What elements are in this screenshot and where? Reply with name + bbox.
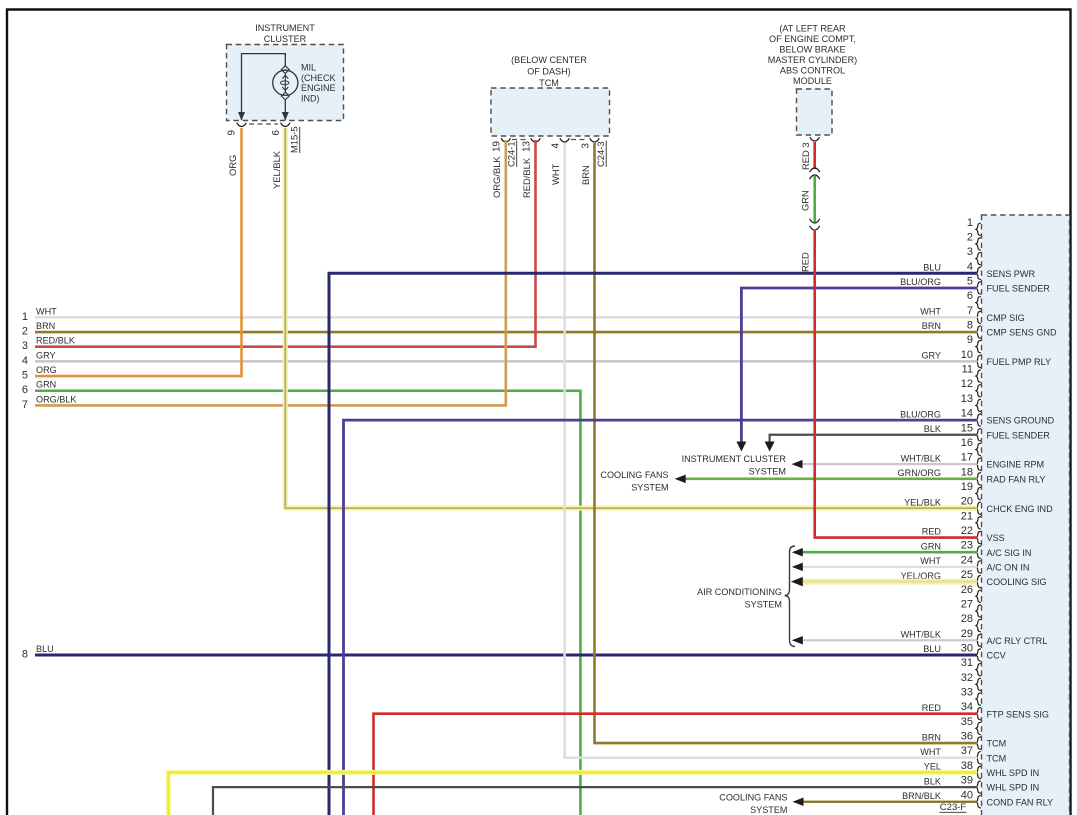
wire GRN/ORG pin 18 RAD FAN RLY [685,478,977,481]
svg-text:RED: RED [922,703,942,713]
ORG/BLK label [491,156,502,198]
svg-text:C24-1: C24-1 [506,141,517,167]
svg-text:9: 9 [227,130,238,135]
cooling fans system label bottom [719,793,787,815]
pin 19 [961,481,981,500]
svg-text:BLU/ORG: BLU/ORG [900,409,941,419]
connector label C23-F [940,802,967,813]
svg-text:4: 4 [551,143,562,149]
svg-text:8: 8 [22,648,28,660]
pin 30 CCV [923,642,1006,661]
svg-text:BRN: BRN [580,165,591,185]
wire RED/BLK row3 to TCM pin 13 [35,140,536,347]
svg-text:6: 6 [22,384,28,396]
MIL lamp U-MIL [273,66,298,100]
pin 32 [961,672,981,691]
pin 9 [967,334,981,353]
pin 1 [967,217,981,236]
svg-text:27: 27 [961,598,973,610]
ORG label [227,155,238,176]
svg-text:FUEL SENDER: FUEL SENDER [987,430,1051,440]
arrow WHT left [792,563,803,572]
svg-text:7: 7 [22,399,28,411]
svg-text:23: 23 [961,540,973,552]
svg-text:BRN: BRN [922,732,941,742]
svg-text:WHL SPD IN: WHL SPD IN [987,768,1040,778]
svg-text:4: 4 [967,261,973,273]
wire cluster internal [242,54,286,120]
svg-text:A/C SIG IN: A/C SIG IN [987,548,1032,558]
pin 20 CHCK ENG IND [904,496,1053,515]
svg-text:C23-F: C23-F [940,802,967,813]
instrument cluster system label [682,454,787,477]
svg-text:CHCK ENG IND: CHCK ENG IND [987,504,1054,514]
pin 31 [961,657,981,676]
node 5 label [22,365,57,382]
svg-text:CMP SENS GND: CMP SENS GND [987,328,1058,338]
pin 12 [961,378,981,397]
svg-text:CMP SIG: CMP SIG [987,313,1025,323]
svg-text:TCM: TCM [987,739,1007,749]
svg-text:BLU/ORG: BLU/ORG [900,277,941,287]
svg-text:11: 11 [962,364,973,376]
svg-text:17: 17 [961,452,973,464]
svg-text:COOLING SIG: COOLING SIG [987,577,1047,587]
wire RED to pin 22 VSS [815,230,977,538]
svg-text:16: 16 [961,437,973,449]
svg-text:28: 28 [961,613,973,625]
TCM pin 4 label [551,143,562,149]
svg-text:ENGINE: ENGINE [301,83,336,93]
pin 34 FTP SENS SIG [922,701,1049,720]
wire BRN TCM pin 3 to pin 36 [595,143,978,743]
pin 17 ENGINE RPM [901,452,1045,471]
wire BLU/ORG to pin 14 SENS GROUND [344,420,978,815]
svg-text:(AT LEFT REAR: (AT LEFT REAR [779,24,846,34]
ECM connector C23-F box [982,215,1070,815]
svg-text:1: 1 [967,217,973,229]
svg-text:COOLING FANS: COOLING FANS [719,793,787,803]
svg-text:33: 33 [961,687,973,699]
svg-text:ORG/BLK: ORG/BLK [491,156,502,198]
svg-text:13: 13 [522,141,533,152]
cooling fans system label [600,470,668,493]
wire BLK to pin 39 WHL SPD IN [213,787,977,815]
svg-text:4: 4 [22,355,28,367]
pin 33 [961,687,981,706]
node 4 label [22,350,56,367]
svg-text:ENGINE RPM: ENGINE RPM [987,460,1045,470]
pin 9 label [227,130,238,135]
svg-text:SYSTEM: SYSTEM [631,483,668,493]
svg-text:8: 8 [967,320,973,332]
svg-text:5: 5 [22,370,28,382]
svg-text:INSTRUMENT: INSTRUMENT [255,23,315,33]
TCM pin 3 label [581,143,592,149]
svg-text:10: 10 [961,349,973,361]
RED label lower [800,252,811,272]
instrument cluster box [227,45,344,121]
svg-text:3: 3 [967,246,973,258]
svg-text:BRN/BLK: BRN/BLK [902,791,941,801]
arrow BLK down [765,442,775,452]
svg-text:WHT: WHT [550,163,561,185]
pin 6 label [271,130,282,136]
YEL/BLK label [271,150,282,189]
cluster internal arrow to pin 9 [238,112,245,121]
TCM pin 19 label [492,141,503,152]
svg-text:OF ENGINE COMPT,: OF ENGINE COMPT, [769,34,856,44]
svg-text:FUEL PMP RLY: FUEL PMP RLY [987,357,1052,367]
svg-text:BLK: BLK [924,776,941,786]
svg-text:37: 37 [961,745,973,757]
svg-text:2: 2 [967,231,973,243]
wire BRN/BLK pin 40 COND FAN RLY [803,801,977,803]
svg-text:BRN: BRN [922,321,941,331]
WHT label [550,163,561,185]
svg-text:RED: RED [922,527,942,537]
svg-text:3: 3 [581,143,592,149]
ABS control module box [797,89,833,135]
ABS title [768,24,857,87]
svg-text:SENS PWR: SENS PWR [987,269,1036,279]
svg-text:WHT: WHT [920,556,941,566]
pin 10 FUEL PMP RLY [921,349,1051,368]
svg-text:SYSTEM: SYSTEM [750,805,787,815]
svg-text:WHT: WHT [920,747,941,757]
pin 2 [967,231,981,250]
connector label C24-3 [595,141,606,167]
arrow GRN/ORG left [675,475,686,484]
svg-text:RED: RED [800,252,811,272]
svg-text:FUEL SENDER: FUEL SENDER [987,284,1051,294]
pin 37 TCM [920,745,1006,764]
svg-text:SYSTEM: SYSTEM [749,467,786,477]
svg-text:6: 6 [967,290,973,302]
svg-text:BELOW BRAKE: BELOW BRAKE [779,45,845,55]
svg-text:MODULE: MODULE [793,76,832,86]
svg-text:GRN: GRN [36,380,56,390]
wire ORG row5 to cluster pin 9 [35,128,242,376]
svg-text:IND): IND) [301,93,320,103]
wire WHT row1 to pin 7 [35,316,977,319]
svg-text:SENS GROUND: SENS GROUND [987,416,1055,426]
svg-text:ORG/BLK: ORG/BLK [36,394,76,404]
arrow BLU/ORG down [736,442,746,452]
svg-text:WHT: WHT [920,307,941,317]
pin 21 [961,510,981,529]
pin 5 FUEL SENDER [900,275,1050,294]
pin 4 SENS PWR [923,261,1035,280]
inline connector upper [810,168,820,179]
svg-text:19: 19 [961,481,973,493]
TCM connector arcs [501,138,599,142]
svg-text:14: 14 [961,408,973,420]
svg-text:39: 39 [961,775,973,787]
wire GRY row4 to pin 10 [35,360,977,363]
pin 38 WHL SPD IN [924,760,1039,779]
pin 22 VSS [922,525,1005,544]
svg-text:26: 26 [961,584,973,596]
svg-text:34: 34 [961,701,973,713]
svg-text:RED/BLK: RED/BLK [36,336,75,346]
svg-text:CCV: CCV [987,651,1007,661]
pin 29 A/C RLY CTRL [901,628,1048,647]
pin 7 CMP SIG [920,305,1024,324]
svg-text:2: 2 [22,326,28,338]
pin 36 TCM [922,731,1006,750]
ABS connector arc [810,137,820,141]
wire GRN pin 23 A/C SIG IN [802,551,977,554]
wire BLK pin 15 to instrument cluster system [770,435,977,442]
node 7 label [22,394,77,411]
svg-text:RAD FAN RLY: RAD FAN RLY [987,474,1046,484]
pin 40 COND FAN RLY [902,789,1053,808]
svg-text:RED/BLK: RED/BLK [521,157,532,198]
wire WHT pin 24 A/C ON IN [802,566,977,568]
node 8 label [22,644,54,661]
MIL label [301,63,336,104]
svg-text:M15-5: M15-5 [289,126,300,153]
pin 27 [961,598,981,617]
wire WHT/BLK pin 17 ENGINE RPM [802,463,977,465]
svg-text:VSS: VSS [987,533,1005,543]
wire YEL/ORG pin 25 COOLING SIG [802,579,977,585]
svg-text:24: 24 [961,554,973,566]
TCM title [511,55,587,88]
connector label M15-5 [289,126,300,153]
svg-text:13: 13 [961,393,973,405]
svg-text:TCM: TCM [987,753,1007,763]
svg-text:ORG: ORG [227,155,238,176]
arrow WHT/BLK 29 left [792,636,803,645]
svg-text:GRY: GRY [921,351,941,361]
svg-text:35: 35 [961,716,973,728]
node 6 label [22,380,56,397]
wire BRN row2 to pin 8 [35,331,977,334]
BRN label [580,165,591,185]
svg-text:A/C ON IN: A/C ON IN [987,563,1030,573]
svg-text:YEL/BLK: YEL/BLK [271,150,282,189]
svg-text:BRN: BRN [36,321,55,331]
svg-text:15: 15 [961,422,973,434]
svg-text:WHT: WHT [36,306,57,316]
svg-text:GRY: GRY [36,350,56,360]
TCM box [491,88,610,136]
svg-text:A/C RLY CTRL: A/C RLY CTRL [987,636,1048,646]
pin 18 RAD FAN RLY [898,466,1046,485]
pin 28 [961,613,981,632]
svg-text:GRN/ORG: GRN/ORG [898,468,941,478]
svg-text:GRN: GRN [800,190,811,211]
air conditioning brace [785,546,796,647]
svg-text:29: 29 [961,628,973,640]
pin 25 COOLING SIG [901,569,1047,588]
svg-text:CLUSTER: CLUSTER [264,34,307,44]
svg-text:19: 19 [492,141,503,152]
pin 16 [961,437,981,456]
svg-text:C24-3: C24-3 [595,141,606,167]
svg-text:ABS CONTROL: ABS CONTROL [780,66,845,76]
wire BLU to pin 4 SENS PWR [329,273,977,815]
connector M15-5 arcs [237,123,290,127]
wire GRN row6 down off-page [35,391,580,815]
TCM pin 13 label [522,141,533,152]
svg-text:30: 30 [961,642,973,654]
svg-text:GRN: GRN [921,541,941,551]
svg-text:ORG: ORG [36,365,57,375]
svg-text:WHL SPD IN: WHL SPD IN [987,783,1040,793]
wire BLU row8 to pin 30 CCV [35,653,977,656]
svg-text:18: 18 [961,466,973,478]
svg-text:COOLING FANS: COOLING FANS [600,470,668,480]
wire YEL to pin 38 WHL SPD IN [168,772,977,815]
svg-text:(CHECK: (CHECK [301,73,336,83]
svg-text:6: 6 [271,130,282,136]
svg-text:21: 21 [961,510,973,522]
connector label C24-1 [506,141,517,167]
arrow WHT/BLK left [792,460,803,469]
svg-text:40: 40 [961,789,973,801]
wire YEL/BLK cluster pin 6 to pin 20 [285,128,977,508]
svg-text:BLK: BLK [924,424,941,434]
svg-text:3: 3 [22,340,28,352]
svg-text:(BELOW CENTER: (BELOW CENTER [511,55,587,65]
svg-text:WHT/BLK: WHT/BLK [901,453,941,463]
svg-text:5: 5 [967,275,973,287]
wire BLU/ORG pin 5 to instrument cluster system [741,288,977,442]
svg-text:OF DASH): OF DASH) [527,67,570,77]
pin 14 SENS GROUND [900,408,1055,427]
pin 3 [967,246,981,265]
wire ORG/BLK row7 to TCM pin 19 [35,140,506,405]
pin 23 A/C SIG IN [921,540,1032,559]
svg-text:FTP SENS SIG: FTP SENS SIG [987,709,1050,719]
svg-text:1: 1 [22,311,28,323]
svg-text:9: 9 [967,334,973,346]
svg-text:MASTER CYLINDER): MASTER CYLINDER) [768,55,857,65]
svg-text:32: 32 [961,672,973,684]
arrow BRN/BLK left [793,798,804,807]
wire MIL to pin 6 [284,100,286,120]
RED/BLK label [521,157,532,198]
instrument cluster title [255,23,315,44]
svg-text:AIR CONDITIONING: AIR CONDITIONING [697,587,782,597]
pin 15 FUEL SENDER [924,422,1050,441]
svg-text:RED 3: RED 3 [800,142,811,170]
svg-text:INSTRUMENT CLUSTER: INSTRUMENT CLUSTER [682,454,787,464]
node 1 label [22,306,57,323]
pin 13 [961,393,981,412]
svg-text:TCM: TCM [539,78,559,88]
svg-text:BLU: BLU [923,263,941,273]
pin 39 WHL SPD IN [924,775,1039,794]
pin 24 A/C ON IN [920,554,1029,573]
svg-text:SYSTEM: SYSTEM [745,600,782,610]
node 3 label [22,336,75,353]
cluster internal arrow to pin 6 [282,112,289,121]
svg-text:BLU: BLU [36,644,54,654]
svg-text:BLU: BLU [923,644,941,654]
GRN label [800,190,811,211]
pin 6 [967,290,981,309]
wire RED ABS pin 3 segment [813,142,816,169]
svg-text:12: 12 [961,378,973,390]
ABS pin 3 / RED label [800,142,811,170]
svg-text:WHT/BLK: WHT/BLK [901,630,941,640]
svg-text:36: 36 [961,731,973,743]
inline connector lower [810,219,820,230]
pin 11 [962,364,981,383]
pin 8 CMP SENS GND [922,320,1057,339]
air conditioning system label [697,587,782,610]
arrow GRN left [792,548,803,557]
svg-text:22: 22 [961,525,973,537]
pin 26 [961,584,981,603]
node 2 label [22,321,55,338]
wire RED to pin 34 FTP SENS SIG [374,714,978,815]
wire WHT/BLK pin 29 A/C RLY CTRL [802,639,977,641]
pin 35 [961,716,981,735]
svg-text:MIL: MIL [301,63,316,73]
wire WHT TCM pin 4 to pin 37 [565,143,977,758]
svg-text:31: 31 [961,657,973,669]
arrow YEL/ORG left [791,577,803,587]
wire GRN inline segment [813,176,816,222]
svg-text:7: 7 [967,305,973,317]
svg-text:COND FAN RLY: COND FAN RLY [987,797,1054,807]
